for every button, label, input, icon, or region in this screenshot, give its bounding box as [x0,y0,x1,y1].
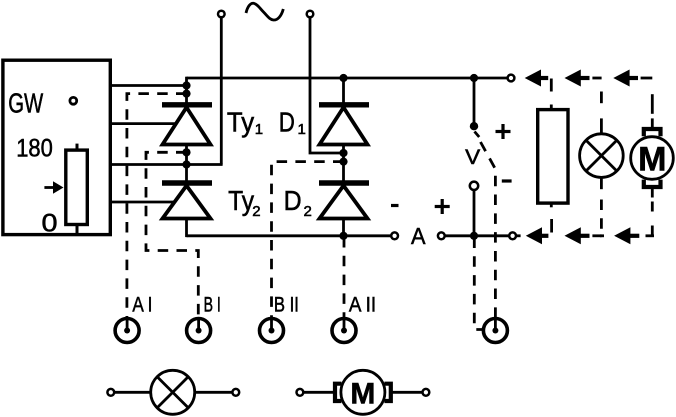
wire GW to bridge midpoint / AC1 [110,163,223,166]
svg-text:180: 180 [16,135,53,163]
wire AC1 vertical [220,17,223,164]
dashed gate lead AI [127,94,187,318]
ammeter terminal right [438,232,445,239]
ammeter plus label [435,199,450,214]
svg-text:1: 1 [255,121,263,138]
thyristor Ty1 [185,77,188,103]
bottom dash before arrow 3 [600,234,604,237]
top bus (+) [187,77,508,80]
svg-text:B I: B I [204,292,221,317]
spare motor [341,370,385,414]
svg-text:2: 2 [304,203,312,220]
svg-text:0: 0 [42,209,58,237]
spare lamp wires [114,391,151,394]
thyristor Ty2 [162,180,212,185]
leg between Ty1 and Ty2 [185,145,188,182]
svg-text:1: 1 [298,121,306,138]
lamp dashed drop top [592,77,601,80]
spare motor right terminal [423,389,430,396]
lamp load [580,134,624,178]
wire AC2 vertical [310,17,343,153]
svg-text:M: M [638,141,666,179]
load resistor R [538,110,568,204]
terminal BI [187,319,211,343]
motor dashed drop bottom [651,189,654,198]
svg-text:D: D [284,185,302,216]
dashed lead from ammeter node to common terminal [474,238,482,330]
motor load brush bottom [644,180,661,187]
svg-text:A: A [411,223,426,249]
svg-text:D: D [279,107,295,138]
voltmeter branch bottom wire [473,190,476,236]
svg-text:A I: A I [132,292,152,317]
voltmeter branch top wire [473,78,476,126]
bottom bus left segment [187,234,392,237]
AC terminal 1 [218,11,225,18]
svg-text:B II: B II [274,292,299,317]
svg-text:Ty: Ty [227,107,254,138]
svg-text:2: 2 [252,203,260,220]
bottom bus right segment [445,234,510,237]
spare motor brush right [384,384,390,401]
plug arrow bottom 1 [526,227,542,244]
junction dots [182,81,190,89]
voltmeter branch bottom terminal [470,182,478,190]
diode D1 [342,78,345,103]
voltmeter minus label [502,179,512,182]
leg D2 to bottom bus [342,219,345,238]
terminal AI [115,319,139,343]
plug arrow bottom 3 [614,227,630,244]
motor dashed drop top [641,77,653,80]
voltmeter dashed lead to common terminal [481,142,496,317]
ammeter terminal left [391,232,398,239]
top bus terminal [508,75,515,82]
indicator dot on GW box [70,97,77,104]
plug arrow top 1 [525,70,541,87]
wiper arrow [44,186,53,189]
common measuring terminal [483,319,507,343]
dashed gate lead BI [146,152,198,318]
svg-text:M: M [350,377,375,410]
svg-text:Ty: Ty [228,185,254,216]
spare motor: left terminal [297,389,304,396]
wire GW to Ty1 cathode node [110,84,187,87]
dashed gate lead BII [272,162,344,318]
spare motor brush left [335,384,341,401]
svg-text:V: V [465,146,480,169]
AC sine symbol [246,3,283,20]
wire GW to Ty1 gate [110,122,178,125]
spare lamp [151,370,195,414]
plug arrow top 3 [613,70,629,87]
load resistor dashed drop top [550,79,553,92]
wire GW to Ty2 gate [110,201,176,204]
terminal BII [260,319,284,343]
spare motor wires [303,391,334,394]
bottom bus terminal [509,232,516,239]
spare lamp right terminal [232,389,239,396]
voltmeter lead tick [475,132,480,138]
terminal AII [332,319,356,343]
lamp dashed drop bottom [600,177,603,189]
trigger unit box GW [3,60,110,234]
voltmeter plus label [496,124,511,139]
plug arrow top 2 [565,70,581,87]
potentiometer P [66,150,88,224]
plug arrow bottom 2 [565,227,581,244]
motor load [631,137,674,180]
spare lamp: left terminal [107,389,114,396]
AC terminal 2 [307,11,314,18]
motor load brush top [644,129,661,136]
leg between D1 and D2 [342,145,345,182]
svg-text:A II: A II [349,292,376,317]
load resistor dashed drop bottom [550,219,553,233]
diode D2 [319,180,369,185]
dashed lead AII [343,237,346,318]
leg Ty2 to bottom bus [185,219,188,238]
ammeter minus label [391,204,399,207]
svg-text:GW: GW [8,87,43,118]
